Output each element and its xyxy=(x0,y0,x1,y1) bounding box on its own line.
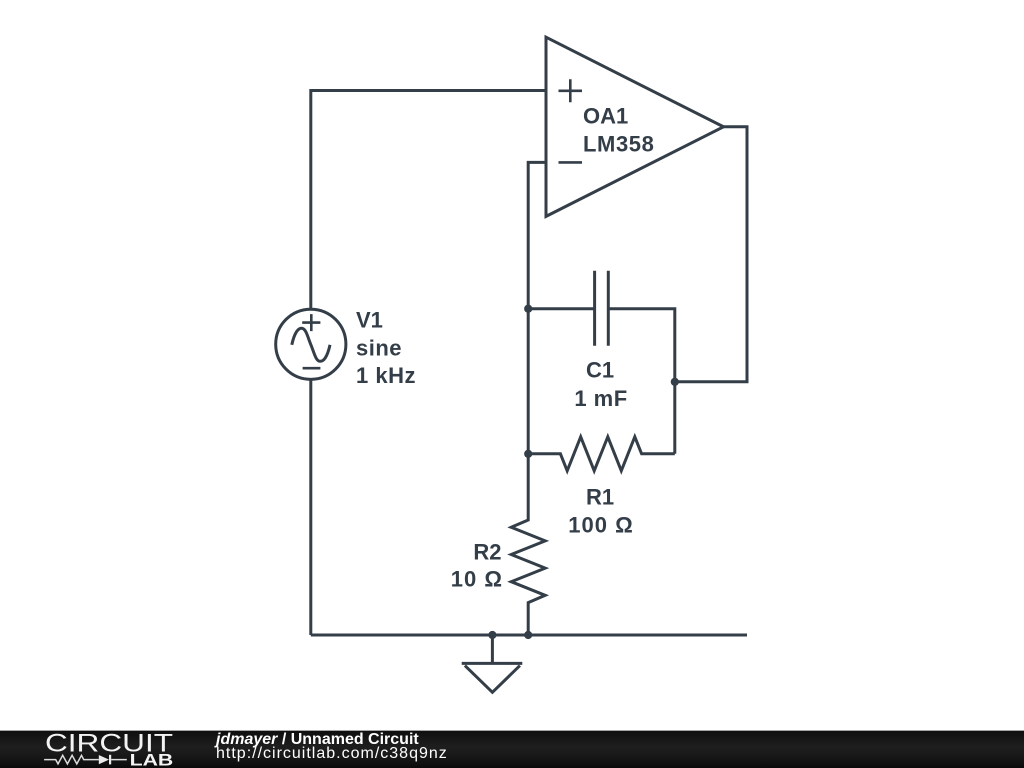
ground symbol stem xyxy=(491,635,494,662)
wire: V1 plus terminal up and right to op-amp non-inverting input xyxy=(311,91,546,309)
ground symbol triangle xyxy=(465,666,520,693)
svg-text:10 Ω: 10 Ω xyxy=(451,566,503,591)
node junction dot at R1 left / node A bottom xyxy=(524,450,532,458)
svg-text:V1: V1 xyxy=(356,307,383,332)
svg-text:1 mF: 1 mF xyxy=(574,386,627,411)
V1 minus sign xyxy=(303,367,321,370)
node: ground stem junction dot xyxy=(488,631,496,639)
node A junction dot at C1 left xyxy=(524,305,532,313)
svg-text:OA1: OA1 xyxy=(583,103,628,128)
svg-text:R1: R1 xyxy=(586,484,614,509)
wire: op-amp output right and down to feedback node xyxy=(675,127,747,382)
logo diode bar xyxy=(109,755,111,765)
footer bar xyxy=(0,730,1024,768)
capacitor C1 plates xyxy=(595,271,609,346)
node: R2 bottom junction dot xyxy=(524,631,532,639)
footer title text xyxy=(216,733,448,761)
wire: inverting input left and down to node A xyxy=(528,162,546,453)
svg-text:sine: sine xyxy=(356,335,402,360)
svg-text:C1: C1 xyxy=(586,358,614,383)
svg-text:LM358: LM358 xyxy=(583,131,654,156)
svg-text:LAB: LAB xyxy=(130,751,174,768)
ground symbol top bar xyxy=(462,662,523,665)
svg-text:1 kHz: 1 kHz xyxy=(356,363,416,388)
resistor R2 (vertical zigzag with leads) xyxy=(511,454,545,635)
node: feedback junction dot xyxy=(671,378,679,386)
logo diode triangle xyxy=(99,755,109,764)
CircuitLab logo xyxy=(43,730,203,768)
wire: V1 minus terminal down to ground rail xyxy=(309,381,312,636)
voltage source V1 circle xyxy=(276,309,346,379)
logo resistor and diode squiggle xyxy=(44,755,127,764)
wire: C1 right plate to right rail down to R1 right end xyxy=(608,309,675,454)
op-amp minus input symbol xyxy=(559,161,583,164)
V1 sine wave xyxy=(292,328,330,361)
svg-text:100 Ω: 100 Ω xyxy=(568,513,633,538)
wire: node A to C1 left plate xyxy=(528,307,594,310)
op-amp U1 OA1 triangle body xyxy=(546,37,724,216)
wire: bottom ground rail xyxy=(311,634,747,637)
op-amp plus input symbol xyxy=(559,79,583,102)
resistor R1 (horizontal zigzag with leads) xyxy=(528,437,675,471)
svg-text:R2: R2 xyxy=(473,539,501,564)
V1 plus sign xyxy=(302,314,320,331)
